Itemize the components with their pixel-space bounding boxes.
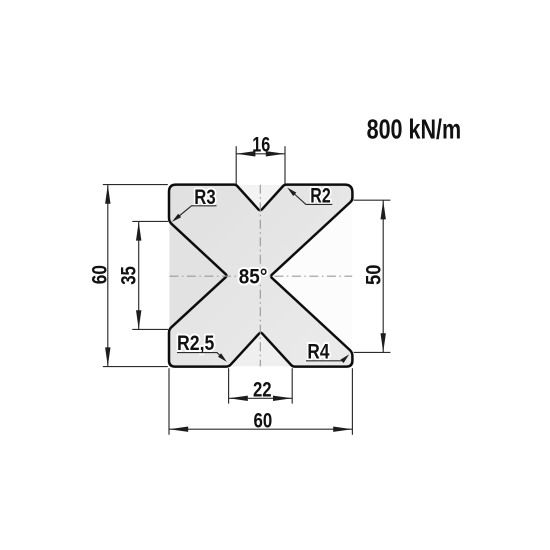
dimension 22: arrowheads [229, 396, 292, 401]
svg-text:60: 60 [254, 410, 273, 433]
svg-text:85°: 85° [239, 266, 268, 289]
top V-groove interior [236, 185, 284, 211]
svg-text:22: 22 [253, 379, 272, 402]
vertical centerline [259, 185, 261, 367]
dimension 60 left: extension lines [103, 185, 168, 367]
left V-groove interior [169, 222, 227, 329]
dimension 16: arrowheads [236, 151, 284, 156]
radius label R3: leader [176, 206, 217, 219]
dimension 60 bottom: dimension line [169, 428, 352, 430]
dimension 60 left: dimension line [107, 185, 109, 367]
right V-groove interior [270, 201, 352, 352]
dimension 60 left: arrowheads [105, 185, 110, 367]
dimension 60 bottom: arrowheads [169, 427, 352, 432]
svg-text:35: 35 [118, 266, 141, 285]
dimension 16: dimension line [236, 153, 285, 155]
svg-text:16: 16 [252, 134, 270, 157]
dimension 35: arrowheads [136, 222, 141, 330]
dimension 35: extension lines [132, 221, 168, 329]
dimension 60 bottom: extension lines [169, 368, 352, 435]
dimension 22: extension lines [229, 368, 293, 403]
svg-text:800 kN/m: 800 kN/m [367, 113, 462, 144]
horizontal centerline [169, 275, 352, 277]
dimension 50: arrowheads [381, 200, 386, 352]
radius label R2,5: leader [177, 353, 224, 360]
dimension 16: extension lines [236, 146, 285, 184]
dimension 35: dimension line [138, 221, 140, 329]
dimension 50: dimension line [382, 200, 384, 352]
radius label R2: leader [291, 191, 333, 205]
svg-text:60: 60 [88, 265, 111, 284]
dimension 50: extension lines [354, 200, 391, 352]
bottom V-groove interior [229, 332, 293, 366]
svg-text:50: 50 [362, 265, 385, 285]
die body (X profile) [169, 185, 352, 367]
svg-text:R2,5: R2,5 [177, 332, 215, 355]
radius label R4: leader [306, 357, 347, 361]
dimension 22: dimension line [229, 397, 293, 399]
